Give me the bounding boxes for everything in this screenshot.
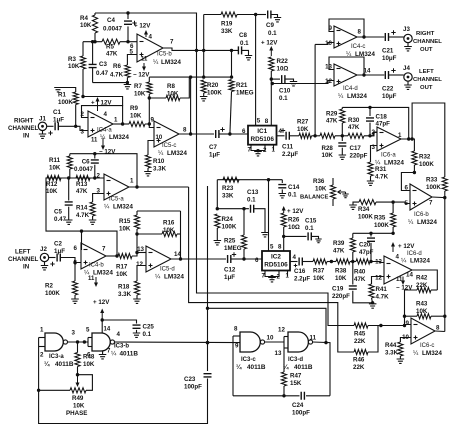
svg-text:LM324: LM324 <box>410 258 430 265</box>
wire IC5-b pin5 <box>127 55 137 58</box>
svg-text:R26: R26 <box>288 217 300 224</box>
ground C8 <box>245 56 252 60</box>
ground C25 <box>133 333 140 337</box>
svg-text:0.0047: 0.0047 <box>103 26 122 33</box>
resistor R40 <box>356 259 370 264</box>
svg-text:14: 14 <box>406 272 413 279</box>
svg-text:R6: R6 <box>113 63 121 70</box>
svg-text:10K: 10K <box>116 271 128 278</box>
resistor R29 <box>340 109 345 123</box>
junction feedback <box>195 49 198 52</box>
svg-text:PHASE: PHASE <box>66 410 87 417</box>
gate IC3-c 4011B <box>240 332 260 352</box>
junction C6 top <box>93 152 96 155</box>
svg-text:IC3-b: IC3-b <box>114 344 129 350</box>
svg-text:1: 1 <box>130 178 134 185</box>
resistor R41 <box>369 284 374 298</box>
capacitor C18 <box>369 107 371 116</box>
resistor R4 <box>92 15 97 33</box>
resistor R35 <box>392 202 394 213</box>
wire IC2 pins 7/2 ground <box>265 271 272 277</box>
svg-text:0.1: 0.1 <box>279 95 288 102</box>
wire IC3-a output <box>68 341 89 343</box>
wire bias to IC2 pin 5 <box>268 180 270 251</box>
svg-text:¼: ¼ <box>236 363 242 371</box>
wire IC1 pin 6 <box>230 133 248 135</box>
svg-text:C14: C14 <box>288 184 300 191</box>
svg-text:C21: C21 <box>382 48 394 55</box>
ground R24 <box>214 241 222 245</box>
svg-text:100K: 100K <box>222 224 237 231</box>
capacitor C10 <box>271 78 280 80</box>
wire R19 branch vertical <box>203 15 205 78</box>
wire IC6-a output <box>401 139 414 151</box>
junction C6 bottom <box>93 176 96 179</box>
svg-text:10K: 10K <box>83 361 95 368</box>
svg-text:R35: R35 <box>374 215 386 222</box>
svg-text:47K: 47K <box>106 50 118 57</box>
svg-text:IC3-c: IC3-c <box>241 357 256 363</box>
junction R28/R29/R30 <box>341 134 344 137</box>
capacitor C11 <box>286 132 289 140</box>
svg-text:C9: C9 <box>266 22 274 29</box>
svg-text:5: 5 <box>270 244 274 251</box>
resistor R37 <box>313 259 327 264</box>
wire IC3-b input tie <box>87 338 89 347</box>
svg-text:12: 12 <box>375 275 382 282</box>
svg-text:4011B: 4011B <box>294 364 313 371</box>
wire bottom loop to C23 <box>39 379 208 424</box>
svg-text:R44: R44 <box>385 342 397 349</box>
op-amp IC4-b <box>81 243 106 269</box>
wire IC5-d pin 12 <box>137 266 146 282</box>
resistor R48 <box>77 342 79 353</box>
junction R15/R16 <box>135 232 138 235</box>
junction R17/pin13 <box>135 251 138 254</box>
svg-text:R3: R3 <box>68 56 76 63</box>
capacitor C20 <box>370 233 372 236</box>
ground R18 <box>133 299 141 303</box>
junction R35 bottom <box>391 232 394 235</box>
svg-text:47K: 47K <box>326 118 338 125</box>
svg-text:R42: R42 <box>416 275 428 282</box>
resistor R26 <box>281 213 286 227</box>
svg-text:IC6-c: IC6-c <box>420 343 434 349</box>
svg-text:IC6-a: IC6-a <box>381 153 396 159</box>
svg-text:R31: R31 <box>375 166 387 173</box>
svg-text:100K: 100K <box>45 290 60 297</box>
resistor R6 <box>126 57 128 65</box>
resistor R32 <box>412 151 417 165</box>
svg-text:IN: IN <box>23 133 30 140</box>
svg-text:47K: 47K <box>354 276 366 283</box>
svg-text:C13: C13 <box>247 189 259 196</box>
svg-text:LM324: LM324 <box>167 150 187 157</box>
wire IC6-a output to right edge <box>412 103 445 177</box>
wire +12V rail to C25 <box>102 320 136 324</box>
junction C1/R1 <box>74 125 77 128</box>
svg-text:2.2μF: 2.2μF <box>294 276 310 283</box>
svg-text:7: 7 <box>102 246 106 253</box>
svg-text:R24: R24 <box>222 216 234 223</box>
IC2 RD5106 delay line <box>262 251 290 271</box>
junction R23/C14 tap <box>267 178 270 181</box>
capacitor C7 <box>216 130 219 138</box>
svg-text:1: 1 <box>40 327 44 334</box>
svg-text:R9: R9 <box>130 105 138 112</box>
svg-text:¼: ¼ <box>153 59 159 66</box>
svg-text:10K: 10K <box>49 164 61 171</box>
wire IC6-d output <box>412 270 437 290</box>
svg-text:13: 13 <box>275 350 282 357</box>
svg-text:22K: 22K <box>353 364 365 371</box>
wire IC2 pin 6 <box>244 258 262 260</box>
jack J2 left channel in <box>40 253 48 261</box>
resistor R23 <box>223 177 239 182</box>
svg-text:22K: 22K <box>416 282 428 289</box>
svg-text:0.47: 0.47 <box>96 70 109 77</box>
resistor R47 <box>283 348 285 372</box>
wire R12 left to IC4-b output loop <box>46 178 82 231</box>
svg-text:10K: 10K <box>73 403 85 410</box>
junction C12/R25 <box>242 257 245 260</box>
svg-text:2.2μF: 2.2μF <box>282 151 298 158</box>
svg-text:BALANCE: BALANCE <box>300 195 328 201</box>
svg-text:10K: 10K <box>313 275 325 282</box>
ground R31 <box>367 181 374 185</box>
svg-text:10K: 10K <box>46 188 58 195</box>
junction R24 top <box>216 207 219 210</box>
svg-text:¼: ¼ <box>111 351 117 358</box>
svg-text:RIGHT: RIGHT <box>416 31 435 37</box>
svg-text:0.1: 0.1 <box>247 197 256 204</box>
resistor R19 <box>221 12 237 17</box>
svg-text:R22: R22 <box>277 58 289 65</box>
svg-text:R37: R37 <box>313 268 325 275</box>
op-amp IC5-a <box>104 174 129 200</box>
junction IC6-b pin5/R35 <box>391 200 394 203</box>
svg-text:R48: R48 <box>83 354 95 361</box>
svg-text:2: 2 <box>372 129 376 136</box>
svg-text:R43: R43 <box>416 301 428 308</box>
IC1 RD5106 delay line <box>248 126 277 145</box>
resistor R27 <box>299 133 312 138</box>
svg-text:R32: R32 <box>419 154 431 161</box>
gate IC3-a 4011B <box>45 333 63 351</box>
svg-text:47K: 47K <box>348 124 360 131</box>
resistor R3 <box>82 42 84 56</box>
ground R36 wiper <box>342 194 348 198</box>
op-amp IC4-d <box>334 64 357 86</box>
ground J4 <box>407 81 409 85</box>
svg-text:8: 8 <box>278 244 282 251</box>
junction C2/R2 <box>73 261 76 264</box>
capacitor C8 <box>238 46 241 54</box>
svg-text:R10: R10 <box>153 158 165 165</box>
svg-text:OUT: OUT <box>420 85 433 91</box>
svg-text:IC4-b: IC4-b <box>89 263 104 269</box>
svg-text:IC3-d: IC3-d <box>288 357 303 363</box>
wire IC2 pin 1 stub <box>287 271 289 277</box>
svg-text:C25: C25 <box>143 324 155 331</box>
wire R15/R16 rail <box>137 210 181 212</box>
junction pin9 node <box>403 315 406 318</box>
svg-text:10K: 10K <box>167 90 179 97</box>
svg-text:J1: J1 <box>39 116 46 123</box>
svg-text:− 12V: − 12V <box>99 149 116 156</box>
junction C7/R21/IC1 pin6 <box>228 132 231 135</box>
resistor R15 <box>136 211 138 215</box>
svg-text:C15: C15 <box>305 218 317 225</box>
svg-text:10: 10 <box>156 135 163 141</box>
wire R15 node to pin 13 <box>136 234 138 253</box>
junction pin9 node <box>148 122 151 125</box>
svg-text:LM324: LM324 <box>384 159 404 166</box>
svg-text:IC2: IC2 <box>271 254 281 261</box>
junction R26/C15 <box>282 235 285 238</box>
svg-text:R20: R20 <box>207 82 219 89</box>
wire IC5-b output <box>163 48 238 50</box>
op-amp IC4-a <box>88 111 113 137</box>
svg-text:1: 1 <box>398 132 402 139</box>
svg-text:4: 4 <box>293 254 297 261</box>
resistor R10 <box>145 155 150 168</box>
svg-text:3.3K: 3.3K <box>385 350 399 357</box>
svg-text:C5: C5 <box>54 209 62 216</box>
junction R6 ground <box>126 81 129 84</box>
resistor R18 <box>134 281 139 295</box>
svg-text:3.3K: 3.3K <box>153 166 167 173</box>
svg-text:C16: C16 <box>294 268 306 275</box>
svg-text:C18: C18 <box>376 114 388 121</box>
+12V R26 supply <box>283 209 285 213</box>
svg-text:R49: R49 <box>72 395 84 402</box>
svg-text:100K: 100K <box>419 161 434 168</box>
wire IC6-c pin 9 <box>405 316 412 324</box>
svg-text:1μF: 1μF <box>224 274 235 281</box>
svg-text:R17: R17 <box>116 264 128 271</box>
svg-text:R30: R30 <box>348 117 360 124</box>
wire IC3-d output <box>313 342 330 396</box>
svg-text:100pF: 100pF <box>292 410 310 417</box>
svg-text:LM324: LM324 <box>347 93 367 100</box>
svg-text:8: 8 <box>265 118 269 125</box>
svg-text:IC5-c: IC5-c <box>162 143 176 149</box>
svg-text:R11: R11 <box>49 157 61 164</box>
resistor R39 <box>352 233 354 238</box>
wire IC4-c pin10 tap <box>314 44 316 135</box>
capacitor C21 <box>385 33 388 41</box>
svg-text:J3: J3 <box>403 26 410 33</box>
node A wire with R5 <box>83 41 102 43</box>
capacitor C22 <box>385 71 388 79</box>
wire IC3-c feedback <box>232 336 234 396</box>
svg-text:1μF: 1μF <box>209 152 220 159</box>
svg-text:5: 5 <box>74 260 78 267</box>
svg-text:R16: R16 <box>163 220 175 227</box>
capacitor C15 <box>284 235 307 237</box>
svg-text:C24: C24 <box>292 402 304 409</box>
wire IC3-a inputs <box>39 337 45 339</box>
svg-text:0.1: 0.1 <box>240 40 249 47</box>
junction R48/R49 wiper <box>76 373 79 376</box>
svg-text:11: 11 <box>141 57 148 63</box>
svg-text:1μF: 1μF <box>53 117 64 124</box>
svg-text:R38: R38 <box>335 268 347 275</box>
svg-text:LEFT: LEFT <box>419 69 434 75</box>
svg-text:R23: R23 <box>222 185 234 192</box>
svg-text:4: 4 <box>279 128 283 135</box>
ground R10 <box>144 172 152 176</box>
ground J2 <box>44 262 46 266</box>
resistor R21 <box>231 50 233 77</box>
resistor R1 <box>73 92 78 105</box>
junction R7/R8 <box>148 96 151 99</box>
ground J1 <box>42 131 44 135</box>
svg-text:C4: C4 <box>107 17 115 24</box>
svg-text:OUT: OUT <box>420 47 433 53</box>
resistor R34 <box>359 200 376 205</box>
svg-text:4: 4 <box>117 331 121 338</box>
+12V R22 supply <box>270 49 272 56</box>
svg-text:R41: R41 <box>376 286 388 293</box>
svg-text:IC4-c: IC4-c <box>351 44 365 50</box>
svg-text:R13: R13 <box>76 181 88 188</box>
svg-text:22K: 22K <box>354 338 366 345</box>
ground C5 <box>65 220 73 224</box>
resistor R42 <box>417 287 431 292</box>
ground R14 <box>89 220 97 224</box>
junction R19 branch <box>202 49 205 52</box>
svg-text:IC1: IC1 <box>257 128 267 135</box>
svg-text:IC5-b: IC5-b <box>157 52 172 58</box>
svg-text:R2: R2 <box>45 283 53 290</box>
svg-text:8: 8 <box>183 127 187 134</box>
svg-text:C6: C6 <box>82 159 90 166</box>
wire IC3-c pin 8 <box>233 335 240 337</box>
wire oscillator loop <box>233 395 300 397</box>
svg-text:CHANNEL: CHANNEL <box>8 256 38 263</box>
wire IC4-c pin 10 <box>315 43 334 45</box>
wire IC6-b output <box>432 197 445 316</box>
op-amp IC6-a <box>377 127 401 151</box>
svg-text:R46: R46 <box>353 357 365 364</box>
svg-text:0.1: 0.1 <box>268 30 277 37</box>
wire IC5-d pin 13 <box>137 252 146 254</box>
wire IC6-c output <box>435 330 445 333</box>
wire IC5-c output <box>179 133 214 135</box>
capacitor C24 <box>301 392 304 400</box>
svg-text:100K: 100K <box>207 90 222 97</box>
svg-text:33K: 33K <box>221 28 233 35</box>
wire IC5-a pin 3 <box>93 194 104 203</box>
svg-text:10K: 10K <box>416 308 428 315</box>
svg-text:0.1: 0.1 <box>305 225 314 232</box>
svg-text:IC6-d: IC6-d <box>407 251 422 257</box>
svg-text:10K: 10K <box>315 186 327 193</box>
wire output feedback down <box>444 316 446 331</box>
junction R38/R40/C19 <box>351 260 354 263</box>
wire IC4-b feedback loop <box>81 231 117 256</box>
svg-text:R29: R29 <box>326 111 338 118</box>
svg-text:+ 12V: + 12V <box>287 208 304 215</box>
wire R16 loop to output <box>180 211 182 259</box>
ground C10 <box>290 82 297 86</box>
resistor R7 <box>148 77 150 82</box>
svg-text:10K: 10K <box>130 112 142 119</box>
svg-text:LM324: LM324 <box>93 270 113 277</box>
svg-text:C10: C10 <box>279 88 291 95</box>
svg-text:R15: R15 <box>119 218 131 225</box>
svg-text:33K: 33K <box>222 193 234 200</box>
wire IC6-b feedback loop <box>401 173 414 191</box>
svg-text:10μF: 10μF <box>382 55 397 62</box>
svg-text:6: 6 <box>242 128 246 135</box>
wire IC4-a feedback loop <box>82 106 123 124</box>
svg-text:1: 1 <box>114 117 118 124</box>
resistor R44 <box>398 342 403 356</box>
wire C18 to pin2 <box>370 133 377 136</box>
svg-text:100pF: 100pF <box>184 384 202 391</box>
ground C13 <box>261 233 269 237</box>
svg-text:IC6-b: IC6-b <box>414 212 429 218</box>
wire IC5-d output <box>171 258 226 260</box>
svg-text:R28: R28 <box>322 145 334 152</box>
capacitor C6 <box>94 154 96 159</box>
ground C3/R6 <box>124 85 132 89</box>
junction C4 top <box>126 11 129 14</box>
wire IC3-b pin 7 ground <box>102 351 104 355</box>
svg-text:14: 14 <box>104 327 111 333</box>
svg-text:13: 13 <box>137 246 144 253</box>
junction R45/R46 <box>379 324 382 327</box>
svg-text:LM324: LM324 <box>113 204 133 211</box>
junction R19/C9 <box>254 13 257 16</box>
svg-text:C8: C8 <box>239 32 247 39</box>
svg-text:10K: 10K <box>163 227 175 234</box>
ground IC2 <box>268 278 276 282</box>
svg-text:R7: R7 <box>134 83 142 90</box>
wire R23 left to R24 <box>216 180 218 209</box>
svg-text:CHANNEL: CHANNEL <box>413 39 442 45</box>
capacitor C16 <box>299 258 302 266</box>
svg-text:5: 5 <box>257 118 261 125</box>
svg-text:C17: C17 <box>350 145 362 152</box>
resistor R46 <box>354 349 368 354</box>
wire IC1 pins 7/2 ground <box>251 145 258 151</box>
op-amp IC5-d <box>146 246 171 272</box>
svg-text:C22: C22 <box>382 86 394 93</box>
gate IC3-d 4011B <box>288 332 308 352</box>
svg-text:47K: 47K <box>76 188 88 195</box>
resistor R33 <box>442 177 447 191</box>
svg-text:IC3-a: IC3-a <box>49 354 64 360</box>
svg-text:¼: ¼ <box>338 93 344 100</box>
svg-text:0.0047: 0.0047 <box>74 166 93 173</box>
wire bus right channel to mixer <box>197 50 355 325</box>
capacitor C17 <box>341 136 343 141</box>
resistor R45 <box>354 323 368 328</box>
svg-text:1μF: 1μF <box>54 248 65 255</box>
svg-text:15K: 15K <box>290 380 302 387</box>
resistor R24 <box>215 214 220 228</box>
junction R22/C10 <box>270 77 273 80</box>
resistor R2 <box>74 263 76 282</box>
svg-text:+ 12V: + 12V <box>398 243 415 250</box>
wire IC3-b pin 14 <box>101 320 103 333</box>
ground J3 <box>407 43 409 47</box>
svg-text:RD5106: RD5106 <box>264 262 288 269</box>
